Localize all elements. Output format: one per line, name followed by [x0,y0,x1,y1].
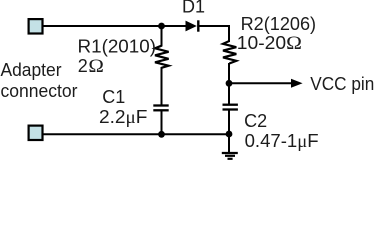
wire VCC node to C2 [228,83,230,104]
svg-text:Ω: Ω [286,33,302,54]
wire R1 upper lead [161,26,163,47]
wire top rail left segment [43,25,186,27]
svg-text:2.2μF: 2.2μF [99,107,148,127]
svg-text:D1: D1 [182,0,205,17]
wire bottom rail [43,133,229,135]
svg-text:VCC pin: VCC pin [310,74,374,94]
node junction bottom rail to ground [226,131,233,138]
wire VCC arrow [229,82,292,84]
diode D1 [186,20,199,31]
svg-text:connector: connector [1,81,78,101]
wire ground lead [228,134,230,152]
adapter connector pin bottom [29,126,43,140]
capacitor C1 [153,106,168,111]
svg-text:Adapter: Adapter [1,60,62,80]
wire top rail right segment with corner down to R2 [200,26,230,42]
wire C1 to bottom rail [161,111,163,135]
node junction bottom of C1 [158,131,165,138]
svg-text:2: 2 [78,56,88,76]
wire R1 to C1 [161,67,163,105]
node junction top of R1 [158,23,165,30]
capacitor C2 [223,105,238,110]
node junction VCC tap [226,80,233,87]
adapter connector pin top [29,19,43,33]
svg-text:R1(2010): R1(2010) [78,37,157,57]
ground [222,153,238,159]
wire R2 to VCC node [228,63,230,83]
svg-text:10-20: 10-20 [237,33,286,53]
svg-text:C1: C1 [102,87,125,107]
svg-text:0.47-1μF: 0.47-1μF [245,131,319,151]
svg-text:C2: C2 [244,111,267,131]
svg-text:Ω: Ω [88,56,104,77]
wire C2 to bottom rail [228,110,230,134]
resistor R1 [155,46,169,68]
resistor R2 [223,41,236,64]
svg-text:R2(1206): R2(1206) [241,14,317,34]
